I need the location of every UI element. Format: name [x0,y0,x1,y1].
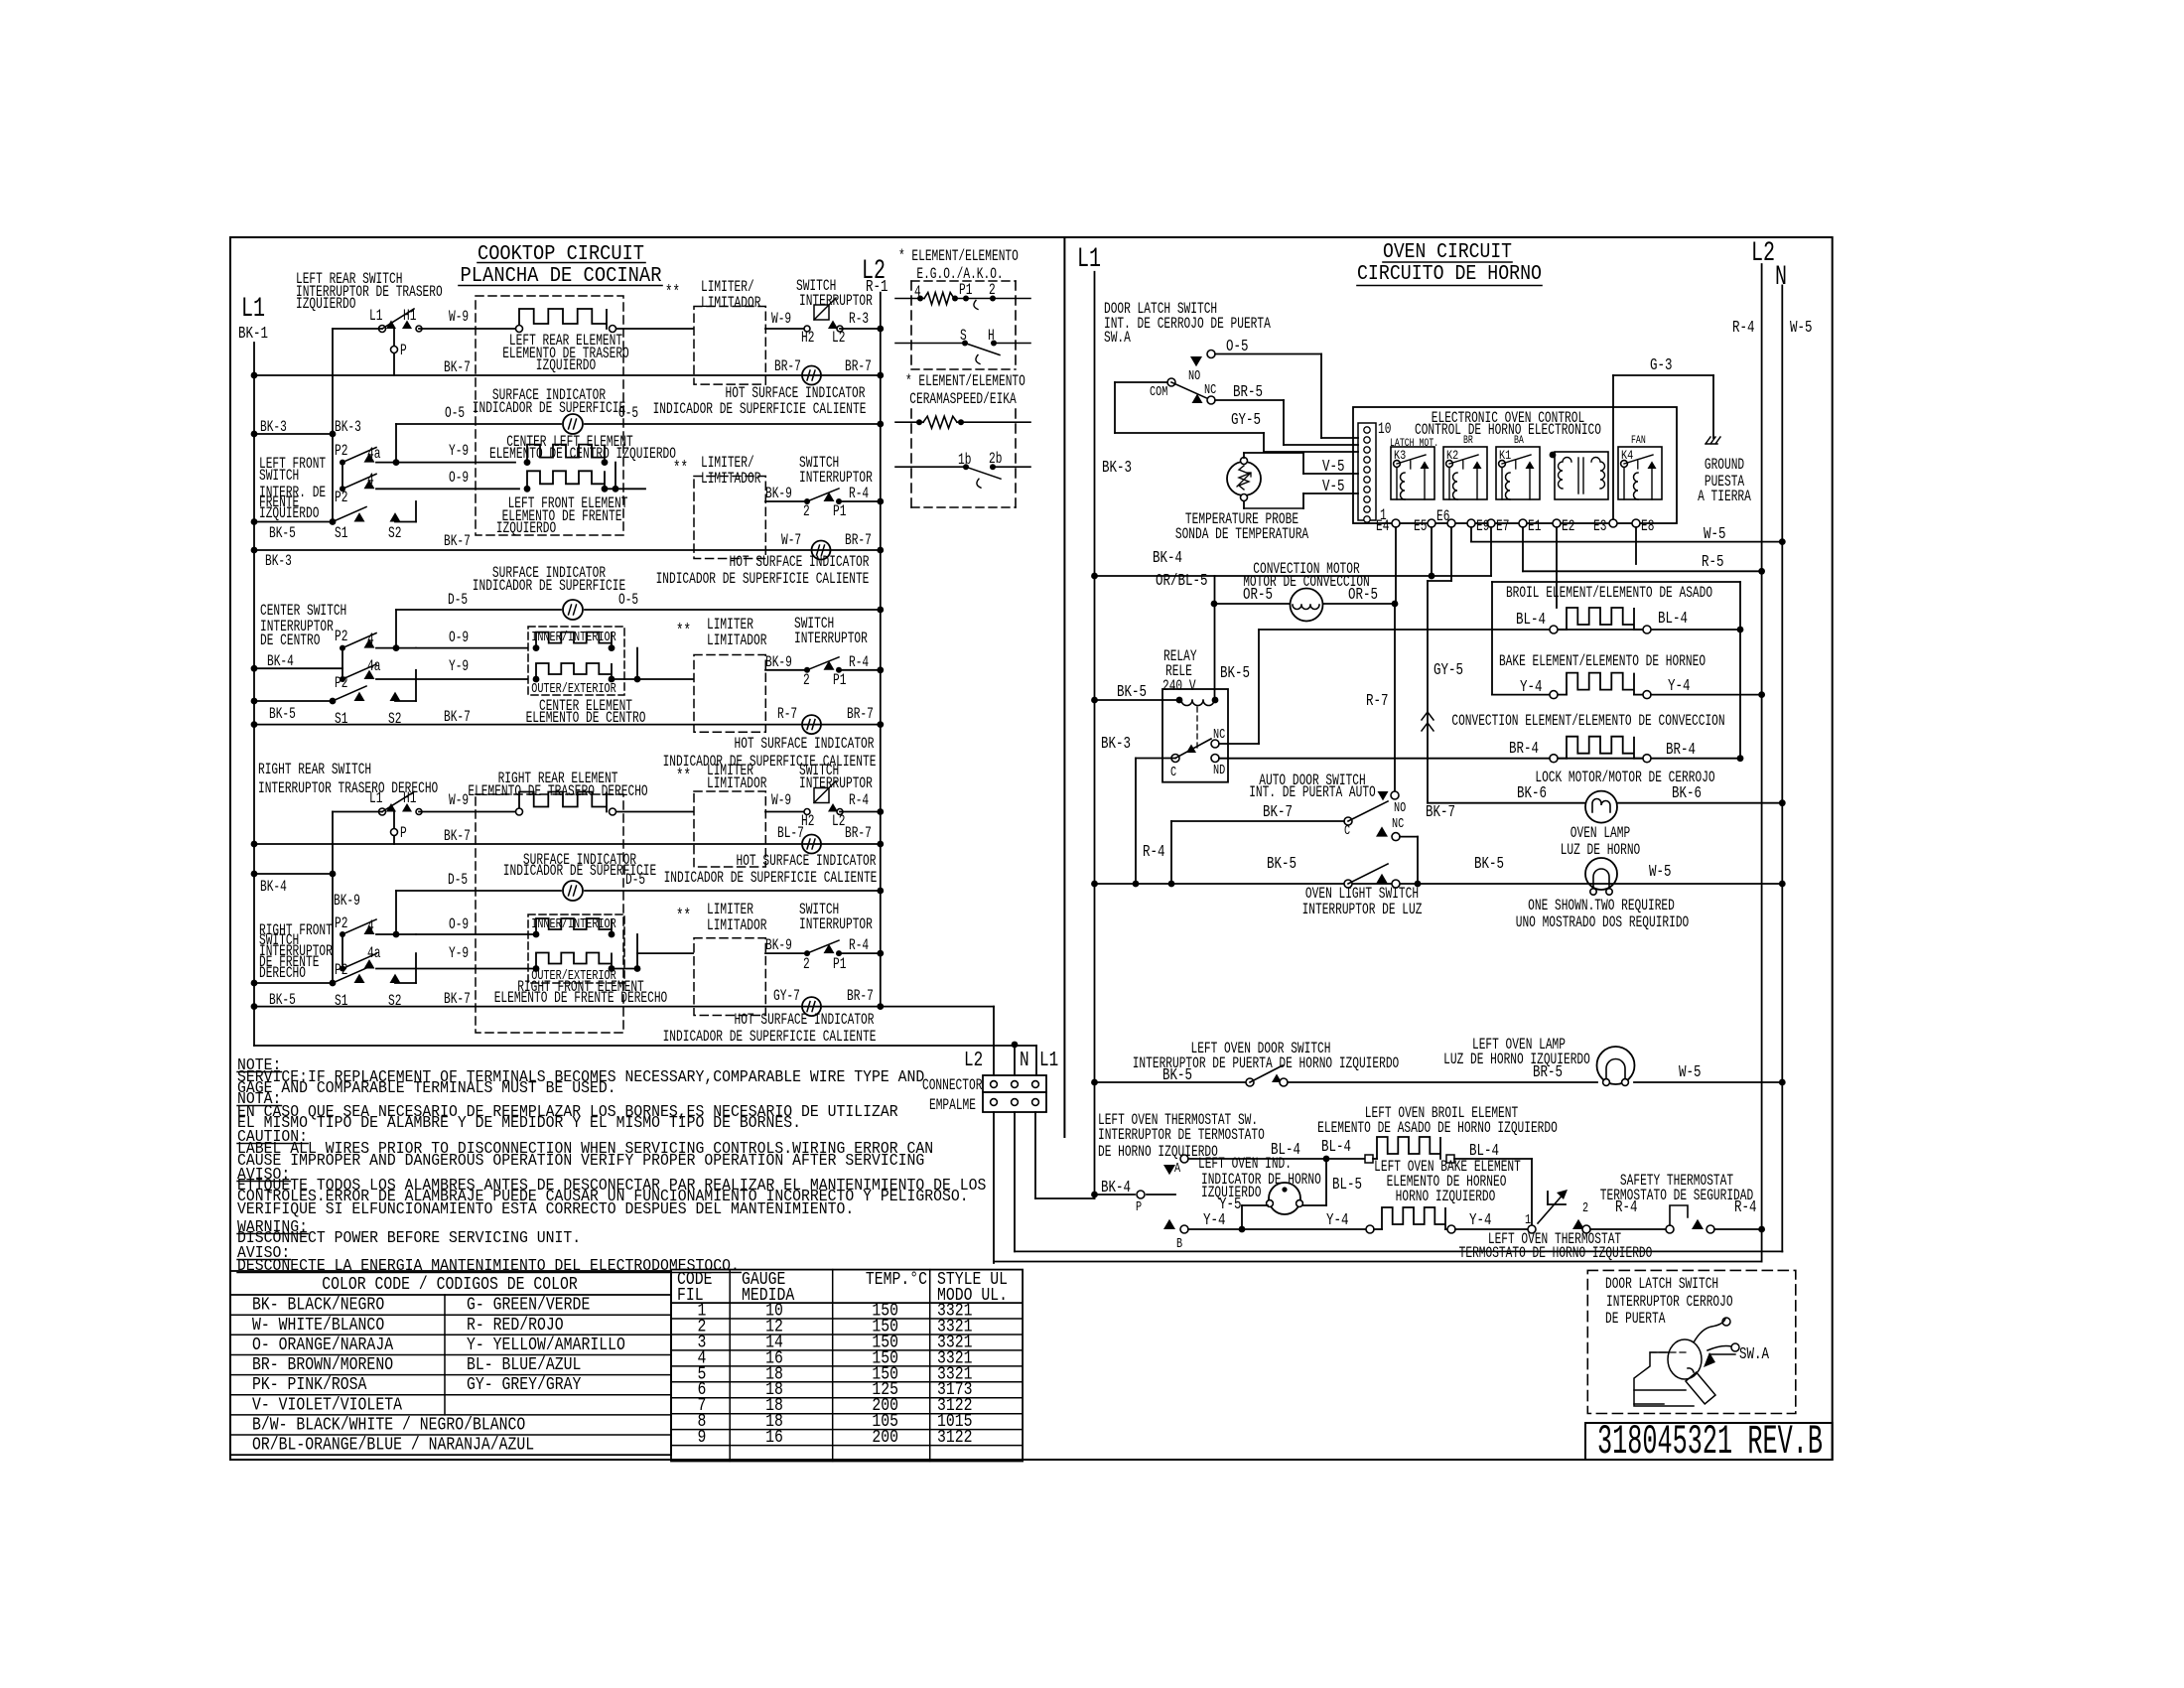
svg-text:OVEN LAMP: OVEN LAMP [1570,825,1630,842]
svg-text:BK-5: BK-5 [1474,856,1504,874]
svg-text:GY-5: GY-5 [1231,412,1261,430]
svg-text:**: ** [673,458,688,479]
svg-text:318045321 REV.B: 318045321 REV.B [1597,1419,1823,1466]
svg-text:R- RED/ROJO: R- RED/ROJO [467,1315,564,1336]
svg-text:R-4: R-4 [1734,1198,1757,1216]
svg-text:BK-3: BK-3 [1101,736,1131,754]
svg-text:CONTROL DE HORNO ELECTRONICO: CONTROL DE HORNO ELECTRONICO [1415,422,1601,439]
svg-text:E3: E3 [1593,518,1606,535]
svg-text:CONVECTION ELEMENT/ELEMENTO DE: CONVECTION ELEMENT/ELEMENTO DE CONVECCIO… [1451,713,1724,730]
svg-text:BAKE ELEMENT/ELEMENTO DE HORNE: BAKE ELEMENT/ELEMENTO DE HORNEO [1499,653,1706,670]
svg-text:BR-7: BR-7 [847,706,874,723]
svg-text:OUTER/EXTERIOR: OUTER/EXTERIOR [531,680,616,696]
svg-text:LIMITER/: LIMITER/ [701,455,754,472]
svg-text:BK-3: BK-3 [260,419,287,436]
svg-text:P1: P1 [959,282,972,299]
svg-text:L2: L2 [964,1048,983,1072]
svg-text:E7: E7 [1496,518,1509,535]
svg-text:N: N [1775,262,1787,293]
svg-text:P1: P1 [833,672,846,689]
svg-text:R-4: R-4 [849,937,869,954]
svg-text:NC: NC [1213,726,1225,742]
svg-text:CIRCUITO DE HORNO: CIRCUITO DE HORNO [1357,262,1542,286]
svg-text:**: ** [676,621,691,641]
svg-text:O-5: O-5 [618,592,638,609]
svg-text:OR/BL-5: OR/BL-5 [1156,573,1207,591]
svg-text:BR-7: BR-7 [845,358,872,375]
svg-text:P2: P2 [335,443,347,460]
svg-text:R-7: R-7 [1366,693,1388,711]
svg-text:BROIL ELEMENT/ELEMENTO DE ASAD: BROIL ELEMENT/ELEMENTO DE ASADO [1506,585,1712,602]
svg-text:H1: H1 [403,790,416,807]
svg-text:TEMP.°C: TEMP.°C [866,1270,927,1291]
svg-text:S2: S2 [388,993,401,1010]
svg-text:INTERRUPTOR CERROJO: INTERRUPTOR CERROJO [1606,1294,1733,1311]
svg-text:O-9: O-9 [449,916,469,933]
svg-text:240 V: 240 V [1162,678,1196,695]
svg-text:2: 2 [803,956,810,973]
svg-text:E1: E1 [1528,518,1541,535]
svg-text:BK-5: BK-5 [269,706,296,723]
svg-text:D-5: D-5 [448,872,468,889]
svg-text:COLOR CODE / CODIGOS DE COLOR: COLOR CODE / CODIGOS DE COLOR [322,1275,578,1296]
svg-text:2: 2 [1582,1199,1588,1215]
svg-text:BK-9: BK-9 [765,937,792,954]
svg-text:L1: L1 [369,308,382,325]
svg-text:RIGHT REAR SWITCH: RIGHT REAR SWITCH [258,762,371,778]
svg-text:INDICADOR DE SUPERFICIE CALIEN: INDICADOR DE SUPERFICIE CALIENTE [653,401,867,418]
svg-text:Y-4: Y-4 [1326,1211,1349,1229]
svg-text:V- VIOLET/VIOLETA: V- VIOLET/VIOLETA [252,1395,403,1416]
svg-text:INTERRUPTOR: INTERRUPTOR [799,293,873,310]
svg-text:O-5: O-5 [1226,338,1248,355]
svg-text:BR-7: BR-7 [774,358,801,375]
svg-text:C: C [1344,822,1350,838]
svg-text:BK-7: BK-7 [444,359,471,376]
svg-text:**: ** [665,282,680,303]
svg-text:9: 9 [698,1428,707,1449]
svg-text:SWITCH: SWITCH [259,468,299,485]
svg-text:HOT SURFACE INDICATOR: HOT SURFACE INDICATOR [737,853,877,870]
svg-text:GROUND: GROUND [1705,457,1744,474]
svg-text:VERIFIQUE SI ELFUNCIONAMIENTO: VERIFIQUE SI ELFUNCIONAMIENTO ESTA CORRE… [237,1199,854,1218]
svg-text:L2: L2 [1751,238,1775,269]
svg-text:LIMITADOR: LIMITADOR [707,775,766,792]
svg-text:E4: E4 [1376,518,1389,535]
svg-text:2: 2 [803,503,810,520]
svg-text:INDICADOR DE SUPERFICIE: INDICADOR DE SUPERFICIE [473,578,625,595]
svg-text:ELEMENTO DE TRASERO DERECHO: ELEMENTO DE TRASERO DERECHO [468,783,647,800]
svg-text:TERMOSTATO DE SEGURIDAD: TERMOSTATO DE SEGURIDAD [1600,1188,1753,1204]
svg-text:SW.A: SW.A [1739,1345,1769,1363]
svg-text:BK-9: BK-9 [765,486,792,502]
svg-text:BK- BLACK/NEGRO: BK- BLACK/NEGRO [252,1295,384,1316]
svg-text:D-5: D-5 [625,872,645,889]
svg-text:BL-4: BL-4 [1658,610,1688,628]
svg-text:INTERRUPTOR: INTERRUPTOR [799,775,873,792]
svg-text:ND: ND [1213,762,1225,777]
svg-text:E2: E2 [1562,518,1574,535]
svg-text:EL MISMO TIPO DE ALAMBRE Y DE: EL MISMO TIPO DE ALAMBRE Y DE MEDIDOR Y … [237,1113,801,1132]
svg-text:BK-5: BK-5 [269,525,296,542]
svg-text:LIMITADOR: LIMITADOR [701,471,760,488]
svg-text:BK-5: BK-5 [1117,684,1147,702]
svg-text:GY- GREY/GRAY: GY- GREY/GRAY [467,1375,581,1396]
svg-text:UNO MOSTRADO DOS REQUIRIDO: UNO MOSTRADO DOS REQUIRIDO [1516,914,1690,931]
svg-text:BA: BA [1514,434,1524,446]
svg-text:H2: H2 [801,330,814,347]
svg-text:Y-4: Y-4 [1520,679,1543,697]
svg-text:ELEMENTO DE FRENTE DERECHO: ELEMENTO DE FRENTE DERECHO [494,990,668,1007]
svg-text:L1: L1 [1039,1048,1058,1072]
svg-text:S2: S2 [388,525,401,542]
svg-text:BR-7: BR-7 [847,988,874,1005]
svg-text:CENTER SWITCH: CENTER SWITCH [260,603,346,620]
svg-text:**: ** [676,906,691,926]
svg-text:O- ORANGE/NARAJA: O- ORANGE/NARAJA [252,1336,394,1356]
svg-text:NO: NO [1394,799,1406,815]
svg-text:S2: S2 [388,711,401,728]
svg-text:INTERRUPTOR: INTERRUPTOR [794,631,868,647]
svg-text:S: S [960,328,967,345]
svg-text:IZQUIERDO: IZQUIERDO [496,520,556,537]
svg-text:BL-7: BL-7 [777,825,804,842]
svg-text:4: 4 [914,284,921,301]
svg-text:W-9: W-9 [771,792,791,809]
svg-text:B: B [1176,1235,1182,1251]
svg-text:LIMITER: LIMITER [707,902,753,918]
svg-text:Y- YELLOW/AMARILLO: Y- YELLOW/AMARILLO [467,1336,625,1356]
svg-text:* ELEMENT/ELEMENTO: * ELEMENT/ELEMENTO [898,248,1019,265]
svg-text:LIMITER: LIMITER [707,617,753,633]
svg-text:L1: L1 [241,294,265,325]
svg-text:BL-4: BL-4 [1469,1142,1499,1160]
svg-text:BR-5: BR-5 [1233,384,1263,402]
svg-text:W-5: W-5 [1679,1063,1701,1081]
svg-text:OVEN LIGHT SWITCH: OVEN LIGHT SWITCH [1305,886,1419,903]
svg-text:BK-9: BK-9 [765,654,792,671]
svg-text:A: A [1174,1160,1181,1176]
svg-text:P: P [400,343,407,359]
svg-text:ONE SHOWN.TWO REQUIRED: ONE SHOWN.TWO REQUIRED [1528,898,1675,914]
svg-text:OVEN CIRCUIT: OVEN CIRCUIT [1383,240,1512,264]
svg-text:ELEMENTO DE ASADO DE HORNO IZQ: ELEMENTO DE ASADO DE HORNO IZQUIERDO [1317,1120,1558,1137]
svg-text:2: 2 [989,282,996,299]
svg-text:V-5: V-5 [1322,479,1344,496]
svg-text:P2: P2 [335,915,347,932]
svg-text:V-5: V-5 [1322,458,1344,476]
svg-text:NC: NC [1392,815,1404,831]
svg-text:GAGE AND COMPARABLE TERMINALS: GAGE AND COMPARABLE TERMINALS MUST BE US… [237,1078,616,1097]
svg-text:BL-4: BL-4 [1321,1139,1351,1157]
svg-text:INDICADOR DE SUPERFICIE CALIEN: INDICADOR DE SUPERFICIE CALIENTE [663,754,877,771]
svg-text:BK-3: BK-3 [265,553,292,570]
svg-text:E9: E9 [1476,518,1489,535]
svg-text:OR-5: OR-5 [1243,587,1273,605]
svg-text:BK-7: BK-7 [444,991,471,1008]
svg-text:BR-5: BR-5 [1533,1063,1563,1081]
svg-text:SW.A: SW.A [1104,330,1132,347]
svg-text:INDICADOR DE SUPERFICIE CALIEN: INDICADOR DE SUPERFICIE CALIENTE [664,870,878,887]
svg-text:BL- BLUE/AZUL: BL- BLUE/AZUL [467,1355,581,1376]
svg-text:PLANCHA DE COCINAR: PLANCHA DE COCINAR [461,264,662,288]
svg-text:G- GREEN/VERDE: G- GREEN/VERDE [467,1295,590,1316]
svg-text:P: P [1136,1198,1142,1214]
svg-text:B/W- BLACK/WHITE / NEGRO/BLANC: B/W- BLACK/WHITE / NEGRO/BLANCO [252,1415,525,1436]
svg-text:P2: P2 [335,629,347,645]
svg-text:BK-4: BK-4 [260,879,287,896]
svg-text:Y-9: Y-9 [449,658,469,675]
svg-text:2: 2 [803,672,810,689]
svg-text:BK-7: BK-7 [444,828,471,845]
svg-text:LIMITADOR: LIMITADOR [701,295,760,312]
svg-text:BR-7: BR-7 [845,825,872,842]
svg-text:NC: NC [1204,381,1216,397]
svg-text:P1: P1 [833,503,846,520]
svg-text:N: N [1020,1048,1029,1072]
svg-text:DERECHO: DERECHO [259,965,306,982]
svg-text:EMPALME: EMPALME [929,1097,976,1114]
svg-text:PK- PINK/ROSA: PK- PINK/ROSA [252,1375,367,1396]
svg-text:16: 16 [765,1428,783,1449]
svg-text:CAUSE IMPROPER AND DANGEROUS O: CAUSE IMPROPER AND DANGEROUS OPERATION V… [237,1151,924,1170]
svg-text:W-9: W-9 [771,311,791,328]
svg-text:E6: E6 [1436,508,1449,525]
svg-text:BK-5: BK-5 [1220,665,1250,683]
svg-text:IZQUIERDO: IZQUIERDO [296,296,355,313]
svg-text:INDICADOR DE SUPERFICIE CALIEN: INDICADOR DE SUPERFICIE CALIENTE [656,571,870,588]
svg-text:W-7: W-7 [781,532,801,549]
svg-text:LIMITADOR: LIMITADOR [707,633,766,649]
svg-text:BK-7: BK-7 [444,709,471,726]
svg-text:S1: S1 [335,711,347,728]
svg-text:IZQUIERDO: IZQUIERDO [259,505,319,522]
svg-text:BK-5: BK-5 [1267,856,1297,874]
svg-text:S1: S1 [335,993,347,1010]
svg-text:GY-5: GY-5 [1433,661,1463,679]
svg-text:INTERRUPTOR: INTERRUPTOR [799,916,873,933]
svg-text:BK-7: BK-7 [1263,804,1293,822]
svg-text:BK-7: BK-7 [1426,804,1455,822]
svg-text:INT. DE PUERTA AUTO: INT. DE PUERTA AUTO [1249,784,1376,801]
svg-text:P2: P2 [335,490,347,506]
svg-text:HOT SURFACE INDICATOR: HOT SURFACE INDICATOR [726,385,866,402]
svg-text:BR: BR [1463,434,1473,446]
svg-text:LIMITER/: LIMITER/ [701,279,754,296]
svg-text:BK-6: BK-6 [1672,784,1702,802]
svg-text:R-3: R-3 [849,311,869,328]
svg-text:OR-5: OR-5 [1348,587,1378,605]
svg-text:S1: S1 [335,525,347,542]
svg-text:R-4: R-4 [1143,844,1165,862]
svg-text:O-9: O-9 [449,630,469,646]
svg-text:* ELEMENT/ELEMENTO: * ELEMENT/ELEMENTO [905,373,1025,390]
svg-text:R-7: R-7 [777,706,797,723]
svg-text:LIMITADOR: LIMITADOR [707,917,766,934]
svg-text:INDICADOR DE SUPERFICIE: INDICADOR DE SUPERFICIE [473,400,625,417]
svg-text:W- WHITE/BLANCO: W- WHITE/BLANCO [252,1315,384,1336]
svg-text:COM: COM [1150,383,1167,399]
svg-text:BR- BROWN/MORENO: BR- BROWN/MORENO [252,1355,393,1376]
svg-text:HOT SURFACE INDICATOR: HOT SURFACE INDICATOR [730,554,870,571]
svg-text:CONNECTOR: CONNECTOR [922,1077,982,1094]
svg-text:FAN: FAN [1631,434,1646,446]
svg-text:BK-7: BK-7 [444,533,471,550]
svg-text:200: 200 [872,1428,898,1449]
svg-text:Y-9: Y-9 [449,443,469,460]
svg-text:OR/BL-ORANGE/BLUE / NARANJA/AZ: OR/BL-ORANGE/BLUE / NARANJA/AZUL [252,1435,534,1456]
svg-text:GY-7: GY-7 [773,988,800,1005]
svg-text:Y-4: Y-4 [1203,1211,1226,1229]
svg-text:INTERRUPTOR DE LUZ: INTERRUPTOR DE LUZ [1302,902,1423,918]
svg-text:DOOR LATCH SWITCH: DOOR LATCH SWITCH [1605,1276,1718,1293]
svg-text:BK-9: BK-9 [334,893,360,910]
svg-text:HORNO IZQUIERDO: HORNO IZQUIERDO [1396,1189,1496,1205]
svg-text:BR-4: BR-4 [1666,741,1696,759]
svg-text:CERAMASPEED/EIKA: CERAMASPEED/EIKA [909,391,1017,408]
svg-text:G-3: G-3 [1650,357,1672,375]
svg-text:NO: NO [1188,367,1200,383]
svg-text:R-4: R-4 [849,792,869,809]
svg-text:1: 1 [1525,1211,1531,1227]
svg-text:P1: P1 [833,956,846,973]
svg-text:TERMOSTATO DE HORNO IZQUIERDO: TERMOSTATO DE HORNO IZQUIERDO [1459,1245,1653,1262]
svg-text:A TIERRA: A TIERRA [1698,489,1751,505]
svg-text:C: C [1170,764,1176,779]
svg-text:L1: L1 [369,790,382,807]
svg-text:W-5: W-5 [1649,863,1671,881]
svg-text:BK-3: BK-3 [1102,459,1132,477]
svg-text:DE CENTRO: DE CENTRO [260,633,320,649]
svg-text:O-5: O-5 [618,405,638,422]
svg-text:INTERRUPTOR DE TERMOSTATO: INTERRUPTOR DE TERMOSTATO [1098,1127,1265,1144]
svg-text:D-5: D-5 [448,592,468,609]
svg-text:L1: L1 [1077,244,1101,275]
svg-text:L2: L2 [832,813,845,830]
svg-text:E8: E8 [1641,518,1654,535]
svg-text:1b: 1b [958,452,971,469]
svg-text:2b: 2b [989,451,1002,468]
svg-text:BK-6: BK-6 [1517,784,1547,802]
svg-text:BR-4: BR-4 [1509,740,1539,758]
svg-text:O-9: O-9 [449,470,469,487]
svg-text:INDICADOR DE SUPERFICIE CALIEN: INDICADOR DE SUPERFICIE CALIENTE [663,1029,877,1046]
svg-text:P: P [400,825,407,842]
svg-text:BK-3: BK-3 [335,419,361,436]
svg-text:HOT SURFACE INDICATOR: HOT SURFACE INDICATOR [735,1012,875,1029]
svg-text:HOT SURFACE INDICATOR: HOT SURFACE INDICATOR [735,736,875,753]
svg-text:E5: E5 [1414,518,1427,535]
svg-text:Y-4: Y-4 [1469,1211,1492,1229]
svg-text:W-5: W-5 [1790,320,1812,338]
svg-text:LEFT OVEN IND.: LEFT OVEN IND. [1198,1156,1292,1173]
svg-text:W-9: W-9 [449,309,469,326]
svg-text:W-5: W-5 [1704,525,1725,543]
svg-text:BL-4: BL-4 [1516,612,1546,630]
svg-text:3122: 3122 [937,1428,973,1449]
svg-text:R-5: R-5 [1702,553,1723,571]
svg-text:ELEMENTO DE CENTRO IZQUIERDO: ELEMENTO DE CENTRO IZQUIERDO [489,446,676,463]
svg-text:H: H [988,328,995,345]
svg-text:**: ** [676,766,691,786]
svg-text:BK-4: BK-4 [1153,550,1182,568]
svg-text:R-4: R-4 [1732,320,1755,338]
svg-text:BL-5: BL-5 [1332,1177,1362,1195]
svg-text:LUZ DE HORNO IZQUIERDO: LUZ DE HORNO IZQUIERDO [1443,1052,1590,1068]
svg-text:W-9: W-9 [449,792,469,809]
svg-text:O-5: O-5 [445,405,465,422]
svg-text:BR-7: BR-7 [845,532,872,549]
svg-text:BK-1: BK-1 [238,325,268,343]
svg-text:DE PUERTA: DE PUERTA [1605,1311,1666,1328]
svg-text:Y-4: Y-4 [1668,677,1691,695]
svg-text:SONDA DE TEMPERATURA: SONDA DE TEMPERATURA [1175,526,1309,543]
svg-text:Y-9: Y-9 [449,945,469,962]
svg-text:IZQUIERDO: IZQUIERDO [536,357,596,374]
svg-text:L2: L2 [832,330,845,347]
svg-text:INTERRUPTOR: INTERRUPTOR [799,470,873,487]
